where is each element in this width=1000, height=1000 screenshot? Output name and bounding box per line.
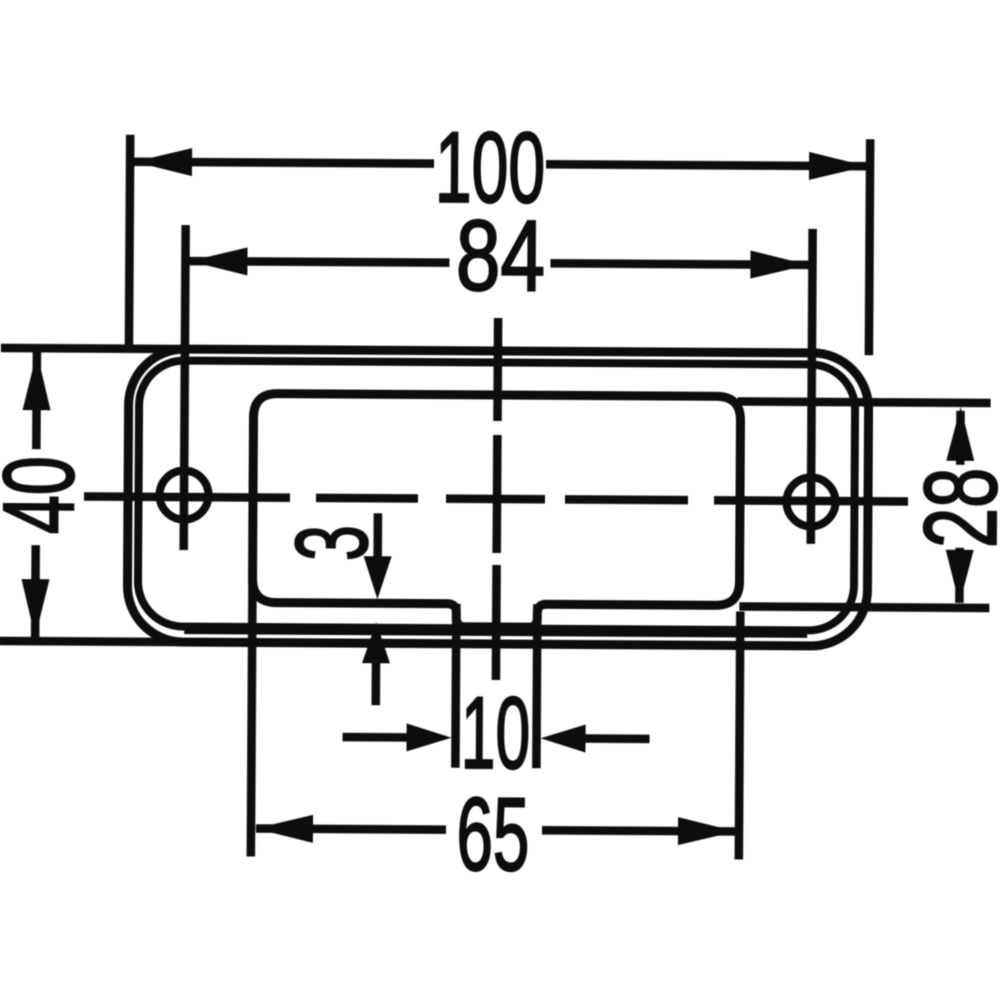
- svg-text:10: 10: [461, 676, 531, 790]
- 65 dimension line: [256, 829, 735, 832]
- right mounting hole: [786, 477, 835, 526]
- 28 top arrowhead: [946, 407, 974, 461]
- 100 left arrowhead: [134, 148, 192, 176]
- 40 dimension line: [35, 352, 37, 637]
- 100 dimension line: [134, 162, 867, 166]
- 10 right arrowhead: [540, 724, 585, 752]
- svg-text:65: 65: [456, 776, 530, 893]
- left mounting hole: [159, 470, 208, 519]
- svg-text:84: 84: [456, 200, 546, 312]
- vertical centerline: [496, 318, 498, 680]
- 28 bottom extension line: [739, 606, 989, 608]
- svg-text:40: 40: [0, 456, 95, 535]
- svg-text:3: 3: [276, 525, 390, 561]
- svg-text:28: 28: [903, 467, 1000, 548]
- 10 dimension line: [343, 737, 650, 739]
- 65 right arrowhead: [678, 817, 736, 845]
- outer housing outline: [127, 349, 869, 647]
- right hole centerline / 84 extension: [811, 229, 813, 544]
- inner housing outline: [138, 360, 856, 630]
- 10 left arrowhead: [406, 723, 451, 751]
- 84 right arrowhead: [750, 251, 808, 279]
- 65 left arrowhead: [255, 815, 313, 843]
- 40 bottom extension line: [0, 641, 179, 642]
- 10 right extension line: [536, 604, 537, 768]
- 28 bottom arrowhead: [945, 550, 973, 604]
- 100 right arrowhead: [809, 152, 867, 180]
- 40 top arrowhead: [23, 352, 51, 410]
- 28 dimension line: [959, 411, 960, 603]
- 10 left extension line: [455, 604, 456, 768]
- 84 dimension line: [189, 261, 808, 265]
- 3 lower arrow shaft: [371, 659, 380, 705]
- 100 right extension line: [869, 139, 870, 355]
- inner housing outline bottom emphasis: [184, 629, 807, 633]
- 65 left extension line: [251, 558, 253, 856]
- 100 left extension line: [129, 135, 130, 351]
- left hole centerline / 84 extension: [184, 225, 186, 550]
- 65 right extension line: [739, 611, 741, 859]
- 28 top extension line: [738, 401, 991, 403]
- 3 lower arrowhead: [362, 622, 390, 663]
- 3 upper arrowhead: [363, 556, 391, 599]
- lens opening with bottom notch: [252, 393, 740, 628]
- 3 upper arrow shaft: [373, 513, 382, 561]
- 40 bottom arrowhead: [21, 579, 49, 637]
- horizontal centerline: [84, 496, 908, 501]
- 40 top extension line: [1, 348, 181, 349]
- 84 left arrowhead: [189, 247, 247, 275]
